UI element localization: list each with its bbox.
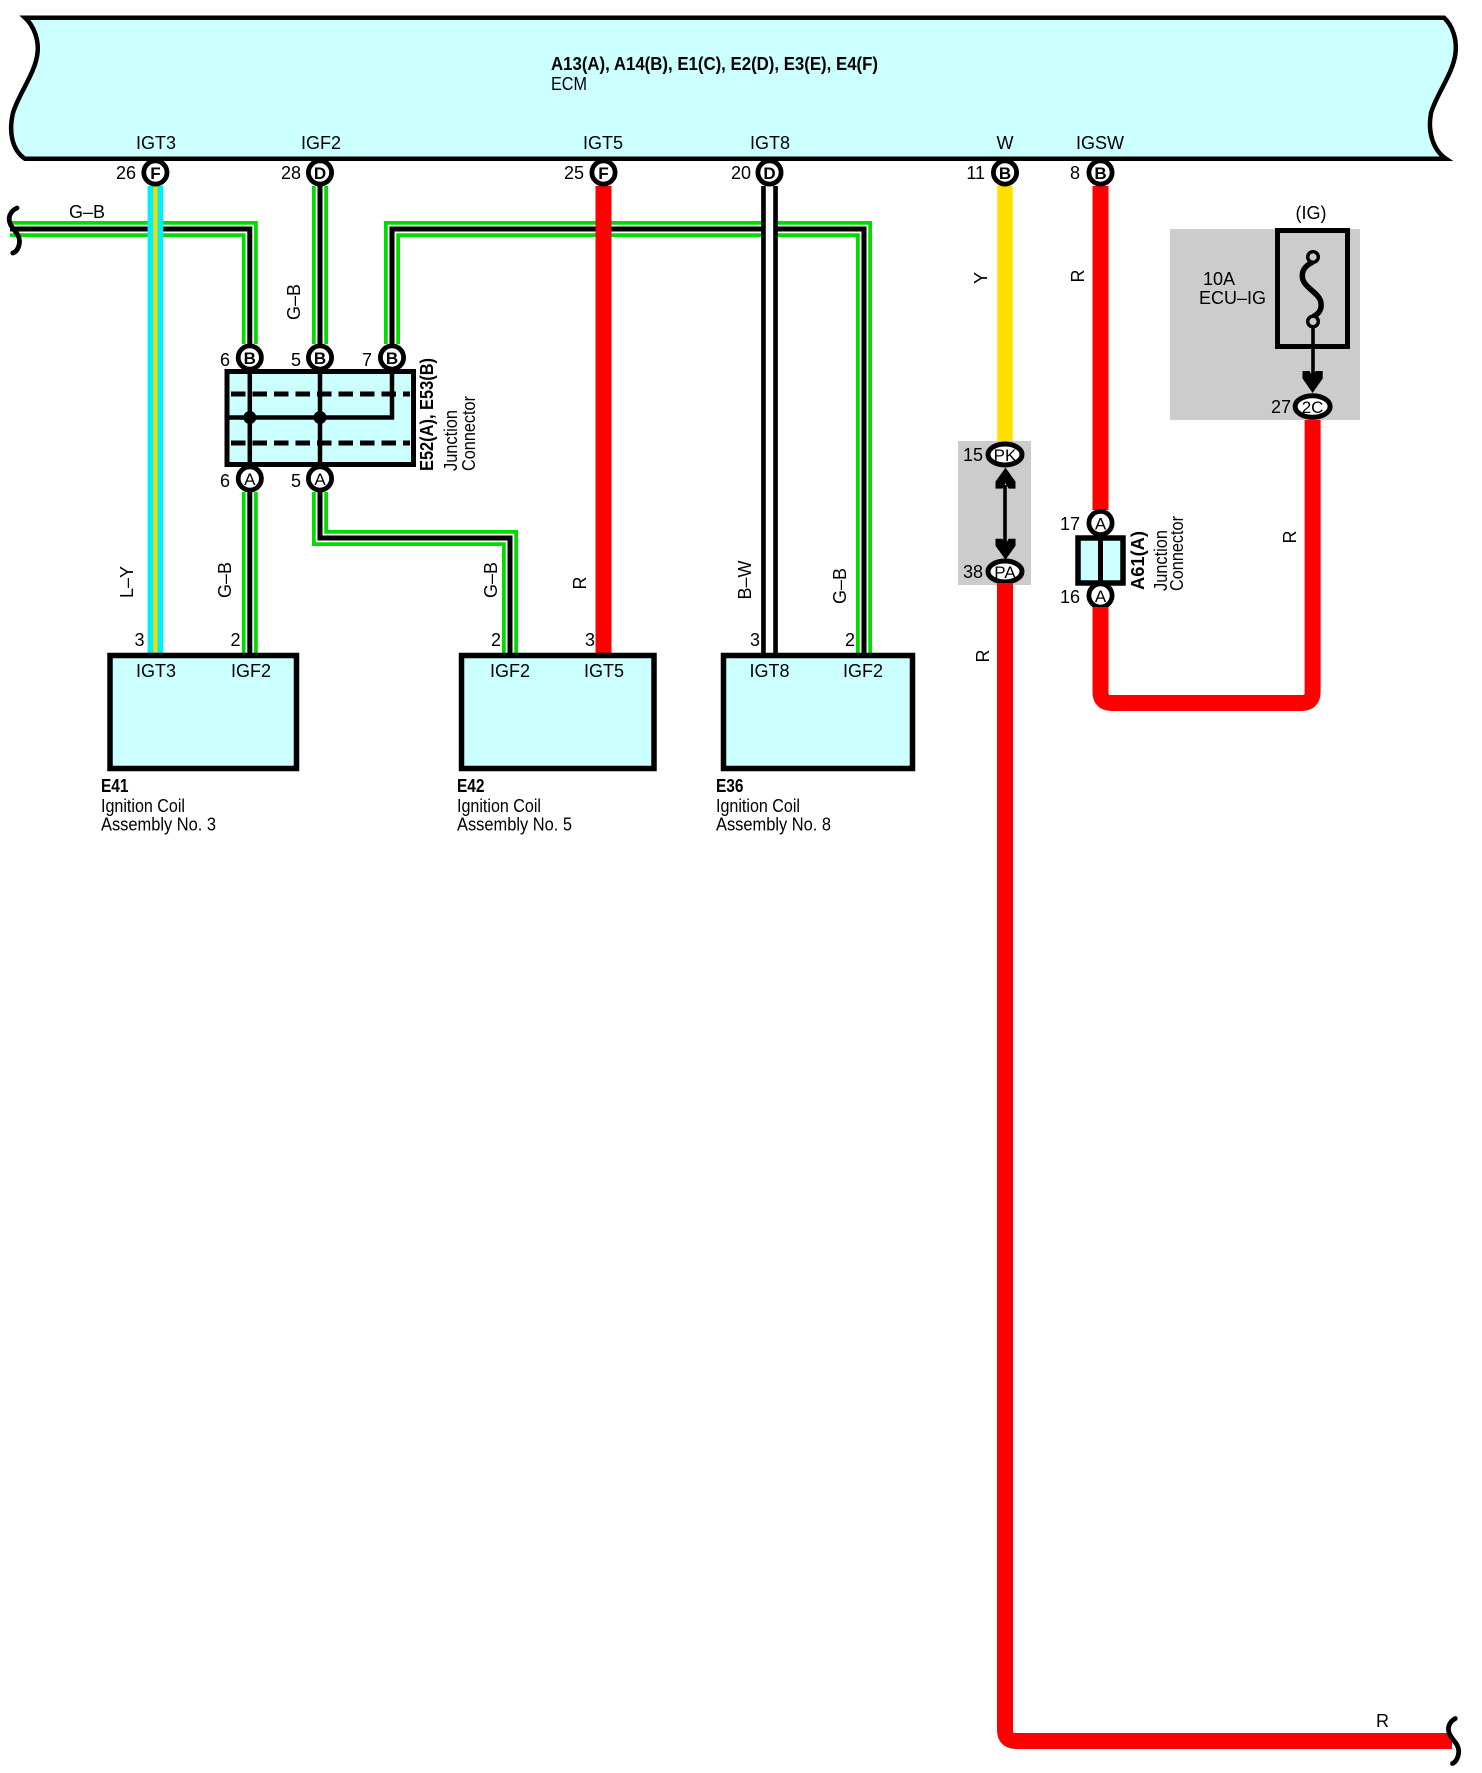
- svg-text:E52(A), E53(B): E52(A), E53(B): [417, 358, 437, 471]
- svg-text:IGT5: IGT5: [584, 661, 624, 681]
- connector E41 Ignition Coil Assembly No.3: [101, 630, 297, 835]
- wire Y from ECM pin 11 to connector 15 PK: [997, 186, 1013, 444]
- svg-text:Assembly No. 5: Assembly No. 5: [457, 815, 572, 835]
- svg-text:B: B: [1094, 164, 1106, 183]
- fuse pin 27 2C: [1271, 396, 1330, 418]
- junction pin 7(B): [362, 346, 404, 370]
- ECM pin 11 B: [966, 161, 1016, 184]
- svg-text:Connector: Connector: [1167, 516, 1187, 591]
- svg-text:R: R: [973, 650, 993, 663]
- wire G-B from junction pin 5(A) to E42 pin 2: [320, 492, 510, 655]
- svg-text:A: A: [244, 470, 256, 489]
- svg-text:2: 2: [845, 630, 855, 650]
- svg-text:(IG): (IG): [1296, 203, 1327, 223]
- svg-text:G–B: G–B: [69, 202, 105, 222]
- ECM pin 26 F: [116, 161, 167, 184]
- svg-text:3: 3: [750, 630, 760, 650]
- shield connector block 15 PK / 38 PA: [958, 441, 1031, 585]
- fuse element: [1302, 262, 1321, 317]
- svg-text:IGT8: IGT8: [750, 133, 790, 153]
- svg-text:A: A: [314, 470, 326, 489]
- svg-text:D: D: [314, 164, 326, 183]
- svg-text:A: A: [1095, 515, 1107, 534]
- svg-text:17: 17: [1060, 514, 1080, 534]
- svg-text:IGT5: IGT5: [583, 133, 623, 153]
- svg-text:Junction: Junction: [441, 410, 461, 471]
- svg-text:R: R: [1280, 531, 1300, 544]
- ECM pin 20 D: [731, 161, 781, 184]
- ECM pin 8 B: [1070, 161, 1112, 184]
- svg-text:R: R: [570, 577, 590, 590]
- wire G-B horizontal from junction pin 7(B) to E36 pin 2: [392, 229, 864, 655]
- double arrow: [1003, 485, 1007, 545]
- wire G-B IGF2 from ECM pin 28 to junction pin 5(B): [312, 186, 328, 344]
- svg-text:7: 7: [362, 350, 372, 370]
- svg-text:IGSW: IGSW: [1076, 133, 1124, 153]
- svg-text:F: F: [150, 164, 160, 183]
- svg-text:ECM: ECM: [551, 74, 587, 94]
- svg-text:B: B: [999, 164, 1011, 183]
- wire B-W IGT8 from ECM pin 20 to E36 pin 3: [761, 186, 778, 655]
- svg-text:38: 38: [963, 562, 983, 582]
- svg-text:6: 6: [220, 350, 230, 370]
- ECM pin 25 F: [564, 161, 615, 184]
- svg-text:ECU–IG: ECU–IG: [1199, 288, 1266, 308]
- svg-text:Y: Y: [971, 272, 991, 284]
- svg-text:Ignition Coil: Ignition Coil: [716, 796, 800, 816]
- wire G-B from junction pin 6(A) to E41 pin 2: [242, 492, 258, 655]
- svg-text:L–Y: L–Y: [117, 566, 137, 598]
- junction pin 6(B): [220, 346, 261, 370]
- arrow to 2C: [1311, 327, 1315, 378]
- svg-text:Assembly No. 3: Assembly No. 3: [101, 815, 216, 835]
- svg-text:3: 3: [585, 630, 595, 650]
- A61 pin 17(A): [1060, 511, 1112, 534]
- junction connector A61(A): [1078, 516, 1187, 591]
- svg-text:B–W: B–W: [735, 560, 755, 599]
- connector pin 38 PA: [963, 561, 1022, 582]
- svg-text:G–B: G–B: [481, 562, 501, 598]
- svg-text:Connector: Connector: [459, 396, 479, 471]
- svg-text:F: F: [598, 164, 608, 183]
- wire G-B horizontal from off-page to junction pin 6(B): [10, 229, 250, 344]
- svg-text:11: 11: [966, 163, 985, 183]
- svg-text:28: 28: [281, 163, 301, 183]
- svg-text:IGT3: IGT3: [136, 133, 176, 153]
- svg-text:27: 27: [1271, 397, 1291, 417]
- svg-text:2C: 2C: [1302, 398, 1324, 417]
- svg-text:15: 15: [963, 445, 983, 465]
- wire R IGSW from ECM pin 8 to A61 pin 17(A): [1093, 186, 1109, 510]
- svg-text:IGF2: IGF2: [843, 661, 883, 681]
- svg-text:3: 3: [134, 630, 144, 650]
- svg-text:Assembly No. 8: Assembly No. 8: [716, 815, 831, 835]
- svg-text:2: 2: [230, 630, 240, 650]
- wire L-Y IGT3 from ECM pin 26 to E41 pin 3: [148, 186, 164, 655]
- svg-text:10A: 10A: [1203, 269, 1235, 289]
- svg-text:E41: E41: [101, 776, 129, 796]
- connector E36 Ignition Coil Assembly No.8: [716, 630, 913, 835]
- svg-text:16: 16: [1060, 587, 1080, 607]
- svg-text:G–B: G–B: [284, 284, 304, 320]
- svg-text:6: 6: [220, 471, 230, 491]
- wire R IGT5 from ECM pin 25 to E42 pin 3: [596, 186, 612, 655]
- svg-text:R: R: [1376, 1711, 1389, 1731]
- svg-text:5: 5: [291, 350, 301, 370]
- wire R from 38 PA down and right off-page: [1005, 583, 1452, 1741]
- svg-text:IGF2: IGF2: [490, 661, 530, 681]
- svg-text:8: 8: [1070, 163, 1080, 183]
- junction pin 6(A): [220, 467, 261, 491]
- svg-text:IGF2: IGF2: [301, 133, 341, 153]
- svg-text:E36: E36: [716, 776, 744, 796]
- svg-text:20: 20: [731, 163, 751, 183]
- svg-text:G–B: G–B: [215, 562, 235, 598]
- svg-text:A61(A): A61(A): [1128, 531, 1148, 590]
- svg-text:A: A: [1095, 587, 1107, 606]
- break symbol left: [9, 208, 19, 253]
- svg-text:E42: E42: [457, 776, 485, 796]
- svg-text:26: 26: [116, 163, 136, 183]
- svg-text:5: 5: [291, 471, 301, 491]
- ECM pin 28 D: [281, 161, 332, 184]
- svg-text:IGF2: IGF2: [231, 661, 271, 681]
- break symbol right bottom: [1448, 1719, 1458, 1764]
- svg-text:2: 2: [491, 630, 501, 650]
- svg-text:R: R: [1068, 270, 1088, 283]
- junction pin 5(B): [291, 346, 332, 370]
- wire R from A61 16(A) to 2C: [1101, 415, 1313, 703]
- svg-text:25: 25: [564, 163, 584, 183]
- svg-text:IGT3: IGT3: [136, 661, 176, 681]
- svg-text:B: B: [386, 349, 398, 368]
- svg-text:G–B: G–B: [830, 568, 850, 604]
- svg-text:PK: PK: [994, 446, 1017, 465]
- svg-text:D: D: [763, 164, 775, 183]
- svg-text:B: B: [314, 349, 326, 368]
- svg-text:IGT8: IGT8: [749, 661, 789, 681]
- svg-text:B: B: [244, 349, 256, 368]
- junction pin 5(A): [291, 467, 332, 491]
- ECM block A13(A) A14(B) E1(C) E2(D) E3(E) E4(F): [11, 18, 1456, 159]
- connector pin 15 PK: [963, 444, 1022, 465]
- connector E42 Ignition Coil Assembly No.5: [457, 630, 654, 835]
- svg-text:A13(A), A14(B), E1(C), E2(D),: A13(A), A14(B), E1(C), E2(D), E3(E), E4(…: [551, 54, 878, 74]
- junction connector E52(A) E53(B): [227, 358, 479, 471]
- fuse block 10A ECU-IG: [1170, 203, 1360, 420]
- A61 pin 16(A): [1060, 584, 1112, 607]
- svg-text:W: W: [997, 133, 1014, 153]
- svg-text:PA: PA: [994, 563, 1016, 582]
- svg-text:Ignition Coil: Ignition Coil: [457, 796, 541, 816]
- svg-text:Ignition Coil: Ignition Coil: [101, 796, 185, 816]
